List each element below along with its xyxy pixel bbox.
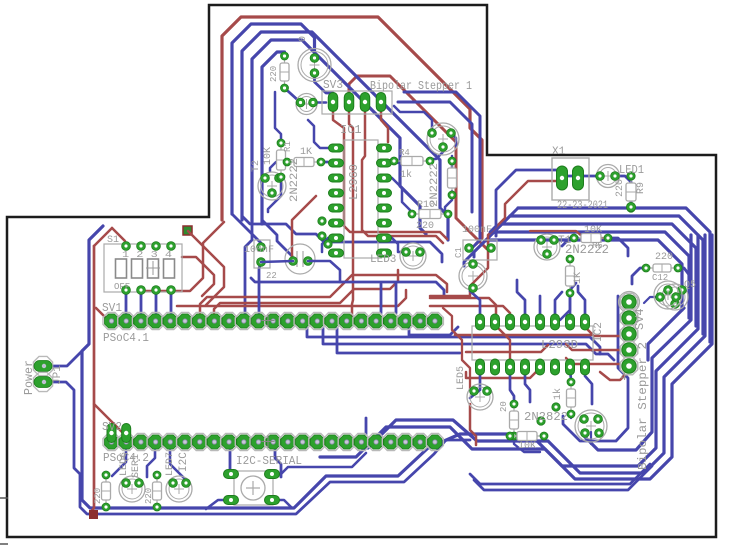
wire blue inner U T5 — [563, 296, 628, 441]
svg-text:L2960: L2960 — [347, 164, 361, 200]
svg-text:I2C-SERIAL: I2C-SERIAL — [236, 454, 302, 468]
capacitor C1 — [463, 240, 497, 260]
svg-text:20: 20 — [499, 401, 509, 412]
transistor T5 — [575, 410, 607, 442]
label C12 — [652, 273, 668, 283]
wire SV2 right feeder — [365, 418, 368, 434]
switch SW I2C-SERIAL — [224, 470, 280, 506]
svg-text:Bipolar Stepper 1: Bipolar Stepper 1 — [370, 79, 472, 93]
capacitor C12 — [654, 281, 682, 309]
label IC2 — [593, 322, 605, 342]
wire red LED5 down — [470, 404, 476, 445]
label T2 — [251, 160, 262, 172]
wire blue bundle top-left — [232, 24, 448, 240]
resistor 2N2822 vert — [510, 400, 519, 440]
wire red SV2 — [94, 404, 126, 434]
svg-text:T1: T1 — [558, 235, 572, 247]
node junction square 2 — [183, 226, 192, 235]
label 4 — [620, 372, 627, 384]
svg-text:1k: 1k — [400, 169, 412, 181]
label LED7 — [165, 452, 176, 476]
label 1234 — [122, 250, 172, 260]
label 100nF C1 — [462, 225, 492, 236]
led LED3 — [400, 243, 426, 269]
svg-text:2N2222: 2N2222 — [289, 158, 301, 202]
label I2C — [178, 452, 190, 472]
label 2N2222 right — [429, 163, 441, 207]
via under R9 — [626, 202, 635, 211]
capacitor C7 rect — [254, 240, 270, 268]
svg-text:IC1: IC1 — [340, 123, 362, 137]
svg-text:Q5: Q5 — [684, 280, 696, 291]
label LED3 — [370, 254, 396, 266]
label 0 top — [298, 36, 309, 42]
svg-text:22: 22 — [266, 271, 277, 281]
label Bipolar Stepper 2 — [636, 342, 650, 470]
svg-text:1k: 1k — [552, 388, 564, 400]
wire red to IC2 top — [430, 298, 510, 315]
wire red to S1 — [112, 228, 125, 246]
svg-text:220: 220 — [655, 252, 673, 263]
resistor R1 10K — [277, 139, 286, 181]
node junction square — [89, 510, 98, 519]
connector SV2 cross — [262, 435, 275, 448]
wire blue left long — [82, 226, 698, 508]
svg-text:S1: S1 — [107, 235, 119, 246]
wire red left diag — [94, 228, 112, 246]
svg-text:PSoC4.1: PSoC4.1 — [103, 331, 149, 345]
svg-text:220: 220 — [416, 221, 434, 232]
switch S1 DIP — [104, 242, 182, 295]
label L293D — [541, 338, 578, 352]
label C1 — [454, 247, 464, 258]
connector SV2 header row — [103, 434, 443, 451]
svg-text:22-23-2021: 22-23-2021 — [557, 200, 608, 212]
led LED2 — [296, 94, 317, 115]
label X1 — [552, 146, 566, 158]
label 10K btm — [518, 441, 536, 452]
label 2N2822 btm — [524, 410, 568, 424]
svg-text:10K: 10K — [584, 225, 602, 236]
wire blue Q5 — [632, 268, 690, 303]
svg-text:LED5: LED5 — [456, 366, 467, 390]
led LED6 — [119, 476, 145, 502]
connector SV1 cross — [262, 314, 275, 327]
wire SV2 drops — [112, 450, 281, 480]
via top block 1 — [318, 217, 332, 248]
resistor R220 top — [280, 52, 289, 92]
svg-text:100nF: 100nF — [244, 245, 274, 256]
resistor R4 — [390, 157, 434, 166]
wire blue cap link — [261, 261, 340, 282]
transistor Q5 — [662, 284, 688, 310]
svg-text:IC2: IC2 — [593, 322, 605, 342]
wire red left long — [91, 246, 94, 512]
svg-text:C12: C12 — [652, 273, 668, 283]
svg-text:R5: R5 — [592, 241, 603, 251]
svg-text:2N2822: 2N2822 — [524, 410, 568, 424]
label LED6 — [119, 452, 130, 476]
capacitor C2 electrolytic — [459, 260, 487, 293]
wire blue T5 — [514, 432, 591, 452]
svg-text:0: 0 — [298, 36, 309, 42]
wire LED5 red — [443, 308, 470, 390]
wire blue IC2 top drops — [470, 280, 585, 318]
resistor 1K top — [283, 158, 325, 167]
svg-text:L293D: L293D — [541, 338, 578, 352]
wire S1 to SV1 — [126, 292, 171, 318]
wire red X1 route — [430, 181, 558, 296]
transistor T4 topright — [427, 123, 459, 155]
label LED1 — [619, 163, 644, 177]
transistor T2 — [258, 172, 286, 200]
resistor 1K right — [566, 255, 575, 297]
label frame tick — [0, 498, 8, 544]
wire blue T3 cluster — [552, 238, 628, 320]
wire red T3 — [530, 231, 604, 238]
via T5 area — [537, 403, 560, 425]
led LED5 — [467, 384, 493, 410]
label R5 — [592, 241, 603, 251]
resistor R10 — [408, 210, 452, 219]
svg-text:220: 220 — [615, 179, 626, 197]
led LED7 — [166, 476, 192, 502]
wire switch wires — [206, 453, 366, 509]
svg-text:10K: 10K — [263, 147, 274, 165]
label 220 R9 — [615, 179, 626, 197]
wire red SV1 pin1 — [96, 308, 111, 321]
label 100nF C7 — [244, 245, 274, 256]
svg-text:10K: 10K — [518, 441, 536, 452]
svg-text:I2C: I2C — [178, 452, 190, 472]
wire JP1 — [52, 351, 82, 366]
resistor 10K right — [570, 234, 612, 243]
svg-text:220: 220 — [269, 66, 279, 82]
svg-text:SER1: SER1 — [131, 454, 142, 478]
connector SV3 — [322, 91, 392, 114]
label SV2 — [102, 420, 122, 434]
wire SV1 drops — [307, 327, 614, 360]
wire red IC2 to SV4 — [566, 328, 627, 365]
label 1K top — [300, 147, 312, 158]
label 2N2222 T3 — [565, 242, 609, 257]
label PSoC4.1 — [103, 331, 149, 345]
label 1k R4 — [400, 169, 412, 181]
ic IC1 L2960 — [329, 140, 392, 258]
wire red top-left second — [349, 76, 487, 249]
wire mid verts to SV1 — [259, 264, 396, 313]
label R10 txt — [417, 200, 435, 211]
svg-text:100nF: 100nF — [462, 225, 492, 236]
label 20 btm — [499, 401, 509, 412]
resistor R9 — [626, 172, 636, 212]
svg-text:SV3: SV3 — [323, 78, 343, 92]
svg-text:SV1: SV1 — [102, 301, 122, 315]
label 22 C7 — [266, 271, 277, 281]
svg-text:1 2 3 4: 1 2 3 4 — [122, 250, 172, 260]
svg-text:1K: 1K — [573, 272, 584, 284]
svg-text:220: 220 — [93, 488, 103, 504]
led LED1 — [596, 165, 620, 188]
wire blue left 2 — [52, 382, 470, 514]
svg-text:R10: R10 — [417, 200, 435, 211]
connector X1 — [552, 158, 589, 200]
wire blue mid band 2 — [251, 278, 444, 296]
label 220 R20 — [655, 252, 673, 263]
svg-text:T2: T2 — [251, 160, 262, 172]
label SV4 — [633, 308, 647, 330]
wire blue IC2 bottom drops — [470, 368, 592, 406]
svg-text:Bipolar Stepper 2: Bipolar Stepper 2 — [636, 342, 650, 470]
label SV1 — [102, 301, 122, 315]
connector SV2 pin oblongs — [107, 424, 131, 443]
resistor R220 btm2 — [153, 471, 162, 511]
label 1k btm — [552, 388, 564, 400]
label 220 top — [269, 66, 279, 82]
label I2C-SERIAL — [236, 454, 302, 468]
wire blue bundle feet — [232, 214, 293, 313]
wire red square link — [188, 231, 224, 305]
svg-text:LED1: LED1 — [619, 163, 644, 177]
svg-text:LED3: LED3 — [370, 254, 396, 266]
transistor Q1 — [298, 49, 331, 82]
wire red IC2 inner — [455, 318, 592, 362]
svg-text:LED6: LED6 — [119, 452, 130, 476]
resistor 10K btm — [506, 432, 548, 441]
label T1 — [558, 235, 572, 247]
capacitor C7 circle — [285, 244, 315, 274]
label Bipolar Stepper 1 — [370, 79, 472, 93]
transistor T3 — [534, 234, 560, 260]
svg-text:OFF: OFF — [114, 282, 130, 292]
wire blue U sweep — [320, 235, 712, 479]
label L2960 — [347, 164, 361, 200]
connector JP1 Power — [33, 356, 52, 391]
label PSoC4.2 — [103, 451, 149, 465]
resistor R20 — [642, 264, 682, 272]
svg-text:R1: R1 — [283, 141, 293, 152]
label OFF — [114, 282, 130, 292]
svg-text:SV4: SV4 — [633, 308, 647, 330]
svg-text:JP1: JP1 — [52, 365, 64, 385]
label S1 — [107, 235, 119, 246]
label Q5 — [684, 280, 696, 291]
wire blue mid band — [242, 216, 442, 262]
label SER1 — [131, 454, 142, 478]
svg-text:R9: R9 — [636, 182, 647, 194]
wire red IC1 to cap — [292, 196, 316, 260]
svg-text:220: 220 — [144, 488, 154, 504]
svg-text:1K: 1K — [300, 147, 312, 158]
label 22-23-2021 — [557, 200, 608, 212]
label 10K right — [584, 225, 602, 236]
resistor near T5 1k — [567, 378, 576, 418]
wire blue valley deep — [470, 464, 652, 490]
label SV3 — [323, 78, 343, 92]
label R9 — [636, 182, 647, 194]
wire blue top block inner — [268, 74, 456, 252]
label R4 — [399, 148, 410, 158]
label 220 R10 — [416, 221, 434, 232]
label 1K right — [573, 272, 584, 284]
label LED5 — [456, 366, 467, 390]
resistor R220 btm1 — [102, 471, 111, 511]
wire bundle B left ends — [464, 208, 518, 266]
svg-text:Power: Power — [22, 360, 36, 395]
label Power — [22, 360, 36, 395]
resistor 2N2222 vert — [448, 157, 457, 199]
label 2N2222 T2 — [289, 158, 301, 202]
svg-text:4: 4 — [620, 372, 627, 384]
label 220 btm1 — [93, 488, 103, 504]
svg-text:R4: R4 — [399, 148, 410, 158]
connector SV4 — [619, 292, 640, 375]
wire red SV3 down — [333, 112, 447, 318]
wire blue T4 pair — [398, 92, 480, 247]
wire blue bundle B — [486, 208, 710, 342]
svg-text:C1: C1 — [454, 247, 464, 258]
wire blue X1 — [490, 170, 631, 232]
label 10K T2 — [263, 147, 274, 165]
connector SV1 header row — [103, 313, 443, 330]
svg-text:X1: X1 — [552, 146, 566, 158]
ic IC2 L293D — [472, 314, 593, 375]
label JP1 — [52, 365, 64, 385]
wire red top-left outer — [140, 17, 482, 291]
wire red S1 right — [177, 257, 447, 313]
wire red below IC2 — [466, 366, 629, 380]
label IC1 — [340, 123, 362, 137]
svg-text:LED7: LED7 — [165, 452, 176, 476]
label 220 btm2 — [144, 488, 154, 504]
label R1 — [283, 141, 293, 152]
svg-text:SV2: SV2 — [102, 420, 122, 434]
